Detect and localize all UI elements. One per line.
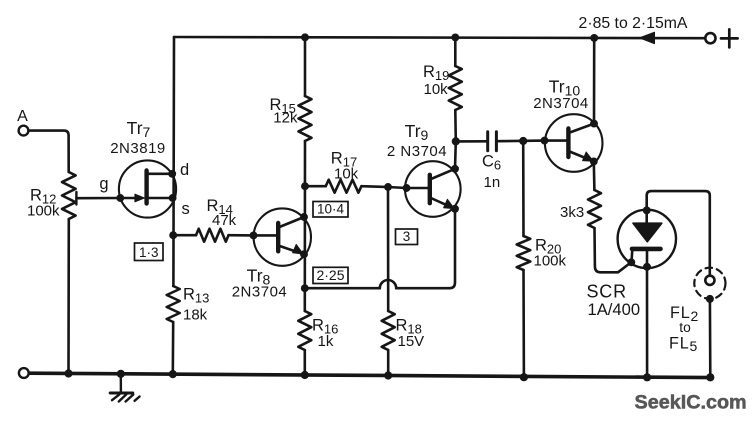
node Tr10 emitter	[590, 157, 598, 165]
wire R15 top lead	[304, 37, 307, 96]
svg-text:10k: 10k	[334, 165, 359, 182]
node SCR gate edge	[627, 258, 635, 266]
node Tr8 base	[250, 231, 258, 239]
resistor R13	[167, 286, 180, 322]
node value box 2.25	[313, 267, 348, 283]
svg-text:Tr9: Tr9	[405, 121, 429, 143]
svg-text:FL5: FL5	[669, 334, 698, 354]
wire C6 to Tr10 base	[496, 139, 544, 142]
svg-text:15V: 15V	[398, 333, 425, 350]
node Tr8 collector	[300, 213, 308, 221]
resistor R14	[173, 229, 253, 242]
resistor R20	[517, 236, 531, 270]
node top rail Tr10	[590, 34, 598, 42]
node ground rail	[117, 370, 125, 378]
transistor Tr10 (2N3704)	[545, 114, 603, 172]
label +	[721, 29, 738, 47]
svg-text:2N3819: 2N3819	[110, 140, 166, 157]
svg-text:s: s	[182, 200, 190, 218]
node Tr7 drain	[168, 170, 176, 178]
svg-text:1n: 1n	[484, 174, 501, 191]
wire R18 to rail	[387, 350, 390, 376]
svg-text:47k: 47k	[212, 212, 237, 229]
wire FL connector to rail	[709, 299, 712, 378]
resistor R18	[382, 311, 395, 350]
capacitor C6	[488, 132, 497, 151]
terminal bottom-left	[19, 368, 29, 378]
svg-text:3k3: 3k3	[560, 204, 584, 221]
node R20 rail	[520, 373, 528, 381]
wire bottom ground rail	[29, 373, 711, 377]
resistor R19	[449, 66, 462, 110]
wire 2.25 node to Tr9 emitter (with hop)	[305, 209, 455, 288]
resistor R17	[305, 180, 388, 193]
wire R20 to rail	[522, 270, 525, 378]
svg-text:1·3: 1·3	[139, 245, 159, 260]
node collector / C6 junction	[452, 137, 460, 145]
current arrow	[640, 32, 655, 43]
svg-text:2N3704: 2N3704	[533, 95, 589, 112]
node value box 10.4	[313, 202, 348, 218]
terminal A	[19, 126, 29, 136]
node R13 rail	[169, 370, 177, 378]
connector FL2-FL5 pin	[705, 276, 714, 285]
svg-text:100k: 100k	[27, 203, 60, 220]
svg-text:to: to	[679, 320, 691, 335]
node Tr9 base edge	[403, 184, 411, 192]
svg-text:3: 3	[403, 229, 411, 244]
node R14 tap	[169, 231, 177, 239]
wire R19 top lead	[454, 37, 457, 66]
svg-text:SeekIC.com: SeekIC.com	[635, 392, 747, 414]
wire R20 top lead	[522, 141, 525, 236]
node R12 bottom rail	[64, 369, 72, 377]
svg-text:10·4: 10·4	[317, 202, 345, 217]
wire Tr10 collector to top rail	[593, 38, 596, 124]
svg-text:2·85 to 2·15mA: 2·85 to 2·15mA	[579, 15, 688, 32]
resistor R15	[299, 96, 312, 141]
svg-text:10k: 10k	[424, 81, 449, 98]
wire top supply rail	[174, 37, 705, 38]
svg-text:2N3704: 2N3704	[232, 284, 288, 301]
node Tr7 source	[169, 194, 177, 202]
node Tr8 emitter	[300, 250, 308, 258]
node Tr10 collector	[590, 120, 598, 128]
node Tr9 collector	[451, 165, 459, 173]
node value box 1.3	[135, 243, 164, 261]
potentiometer R12	[62, 172, 120, 219]
svg-text:2·25: 2·25	[316, 267, 344, 283]
svg-text:g: g	[99, 175, 108, 193]
node 2.25 emitter junction	[301, 284, 309, 292]
wire R16 to rail	[303, 350, 306, 376]
wire SCR anode loop to FL connector	[647, 191, 710, 275]
SCR 1A/400	[618, 210, 676, 268]
svg-text:C6: C6	[482, 153, 501, 173]
wire Tr10 emitter to 3k3	[592, 161, 595, 190]
transistor Tr9 (2N3704)	[405, 161, 461, 217]
resistor R16	[298, 311, 311, 350]
node rail R16	[301, 371, 309, 379]
node R17 junction	[301, 182, 309, 190]
wire A to R12	[29, 131, 69, 172]
svg-text:100k: 100k	[534, 253, 567, 270]
resistor 3k3	[588, 190, 601, 228]
svg-text:12k: 12k	[273, 110, 298, 127]
node SCR anode	[643, 206, 651, 214]
node Tr9 base junction	[384, 183, 392, 191]
node rail end	[706, 373, 714, 381]
svg-text:2 N3704: 2 N3704	[387, 143, 447, 160]
svg-text:1k: 1k	[318, 333, 334, 350]
node Tr10 base edge	[541, 137, 549, 145]
wire R13 to ground rail	[172, 322, 175, 374]
wire left vertical bus (Tr7 drain column)	[172, 37, 175, 286]
wire collector node to C6	[456, 140, 487, 143]
terminal + supply	[705, 33, 715, 43]
svg-text:SCR: SCR	[587, 282, 627, 302]
node R18 rail	[384, 371, 392, 379]
wire 3k3 to SCR gate	[595, 228, 633, 272]
wire R19 to collector node	[454, 110, 457, 169]
node FL connector bottom	[706, 295, 714, 303]
transistor Tr8 (2N3704)	[254, 208, 312, 265]
wire base junction to Tr9	[388, 187, 407, 188]
node R20 top junction	[519, 137, 527, 145]
svg-text:R19: R19	[423, 63, 449, 83]
svg-text:A: A	[17, 108, 28, 125]
wire Tr9 base to R18	[387, 187, 390, 311]
wire R12 to ground rail	[67, 219, 70, 374]
node SCR cathode bottom	[643, 263, 651, 271]
connector FL2-FL5 dashed outline	[694, 268, 725, 299]
node SCR rail	[643, 373, 651, 381]
node value box 3	[396, 229, 418, 245]
ground	[110, 375, 139, 402]
wire R15 to 2.25 node	[303, 141, 306, 311]
node top rail R19	[451, 33, 459, 41]
svg-text:Tr7: Tr7	[127, 118, 151, 140]
svg-text:1A/400: 1A/400	[588, 300, 641, 319]
svg-text:18k: 18k	[183, 307, 208, 324]
wire SCR cathode to rail	[646, 267, 649, 378]
svg-text:d: d	[180, 161, 189, 179]
node Tr7 gate	[116, 194, 124, 202]
svg-text:R13: R13	[183, 286, 209, 306]
node Tr9 emitter	[451, 205, 459, 213]
transistor Tr7 (2N3819 JFET)	[119, 160, 176, 217]
node top rail R15	[301, 33, 309, 41]
